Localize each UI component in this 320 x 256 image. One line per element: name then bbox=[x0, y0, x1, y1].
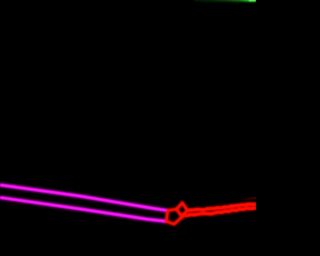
node: marker diamond glow bbox=[177, 203, 188, 217]
node: marker pentagon core bbox=[166, 209, 182, 224]
wire: magenta upper road-edge core bbox=[0, 185, 168, 211]
wire: red upper road-edge glow bbox=[188, 204, 257, 211]
node: marker pentagon glow bbox=[166, 209, 182, 224]
wire: red lower road-edge glow bbox=[181, 208, 256, 216]
wire: magenta lower road-edge core bbox=[0, 198, 166, 222]
wire: red lower road-edge core bbox=[181, 208, 256, 216]
wire: magenta lower road-edge glow bbox=[0, 198, 166, 222]
node: marker diamond core bbox=[177, 203, 188, 217]
wire: green horizon core bbox=[194, 0, 256, 1]
wire: faint distant road edge bbox=[243, 198, 257, 200]
wire: magenta upper road-edge glow bbox=[0, 185, 168, 211]
wire: red upper road-edge core bbox=[188, 204, 257, 211]
wire: green horizon glow bbox=[194, 0, 256, 2]
wire: green horizon bright corner bbox=[249, 0, 256, 2]
